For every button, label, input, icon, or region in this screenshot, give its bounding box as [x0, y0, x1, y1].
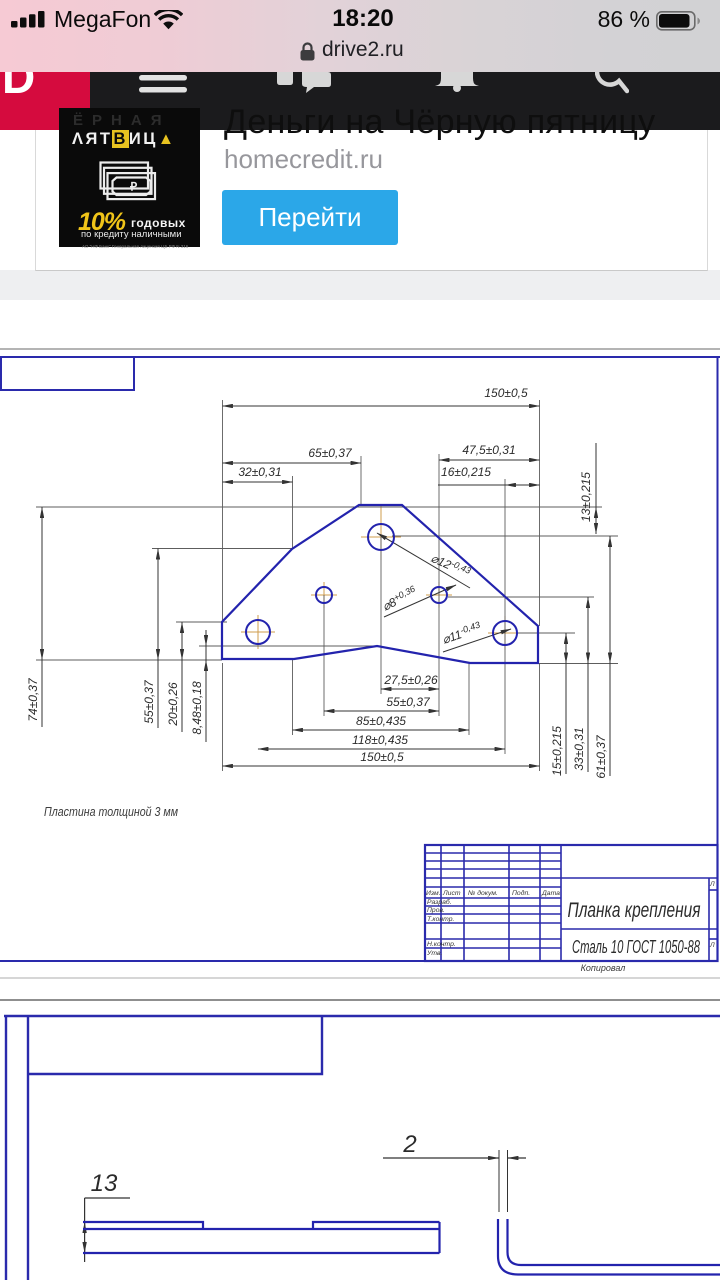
svg-text:Н.контр.: Н.контр.: [427, 941, 456, 948]
svg-text:Копировал: Копировал: [581, 963, 626, 973]
signal bars: [11, 11, 49, 28]
svg-text:Л: Л: [709, 881, 715, 888]
battery icon: [656, 11, 700, 31]
comment bubble icon: [277, 72, 331, 94]
svg-text:65±0,37: 65±0,37: [308, 446, 353, 460]
svg-text:⌀8+0,36: ⌀8+0,36: [380, 584, 419, 614]
iOS status bar: [0, 0, 720, 72]
bell icon: [435, 72, 479, 92]
hole H1 Ø12: [368, 524, 394, 550]
dimension 2 thickness: [383, 1131, 526, 1212]
kopiroval label: [581, 963, 626, 973]
search icon: [595, 72, 629, 94]
sheet2 left edge line: [5, 1016, 7, 1280]
svg-text:55±0,37: 55±0,37: [386, 695, 431, 709]
plate bottom edge: [83, 1252, 440, 1254]
svg-text:₽: ₽: [130, 182, 138, 194]
svg-text:47,5±0,31: 47,5±0,31: [462, 443, 515, 457]
ad white card: [35, 130, 708, 271]
bent strip cross-section: [498, 1219, 720, 1275]
centerline hole H4: [241, 615, 275, 649]
title block: [425, 845, 718, 961]
plate pad right: [313, 1222, 440, 1229]
dimension 150±0,5 top: [223, 386, 540, 406]
svg-text:15±0,215: 15±0,215: [550, 726, 564, 776]
leader Ø12: [377, 533, 472, 588]
svg-text:Т.контр.: Т.контр.: [427, 916, 455, 923]
dimension 47,5±0,31: [439, 443, 540, 460]
sheet1 lower photo edges: [0, 978, 720, 1000]
svg-text:32±0,31: 32±0,31: [238, 465, 281, 479]
svg-text:8,48±0,18: 8,48±0,18: [190, 681, 204, 735]
sheet1 top photo edge: [0, 348, 720, 350]
svg-text:118±0,435: 118±0,435: [352, 733, 408, 747]
leader Ø11: [440, 620, 511, 652]
sheet2 top-left stamp box: [28, 1016, 322, 1074]
sheet1 top-left stamp box: [1, 357, 134, 390]
dimension 32±0,31: [223, 465, 293, 482]
dimension 27,5±0,26: [381, 673, 439, 689]
sheet1 bottom frame line: [0, 960, 718, 962]
centerline hole H3: [426, 582, 452, 608]
dimension 13 height: [85, 1170, 130, 1262]
extension lines horizontals: [36, 507, 618, 664]
svg-text:13: 13: [91, 1170, 118, 1197]
svg-text:Пластина толщиной 3 мм: Пластина толщиной 3 мм: [44, 805, 178, 819]
plate pad left: [83, 1222, 203, 1229]
wifi icon: [154, 10, 183, 30]
sheet1 right frame line: [717, 357, 719, 961]
dimension 15±0,215 right: [550, 633, 566, 776]
title block small labels: [426, 881, 715, 957]
svg-text:2: 2: [402, 1131, 416, 1158]
battery percent: [594, 6, 650, 33]
svg-text:Разраб.: Разраб.: [427, 898, 452, 906]
dimension 20±0,26 left: [166, 622, 182, 732]
leader Ø8: [380, 584, 456, 617]
svg-text:20±0,26: 20±0,26: [166, 682, 180, 727]
plate side view top face: [83, 1222, 440, 1253]
svg-text:Изм.: Изм.: [426, 890, 441, 897]
clock: [330, 5, 396, 33]
extension lines verticals: [223, 400, 540, 771]
hamburger menu icon: [139, 72, 189, 98]
svg-text:Утв.: Утв.: [426, 950, 443, 957]
ad url: [224, 144, 383, 175]
dimension 13±0,215 right top: [579, 443, 596, 534]
ad title: [224, 103, 704, 143]
gray band below card: [0, 270, 720, 300]
svg-text:Л: Л: [709, 942, 715, 949]
centerline hole H5: [488, 616, 522, 650]
dimension 85±0,435: [293, 714, 470, 730]
carrier name: [54, 6, 151, 33]
lock icon: [299, 42, 316, 61]
ad black image: [59, 108, 200, 247]
site header dark bar: [0, 72, 720, 130]
dimension 65±0,37: [223, 446, 362, 463]
svg-text:27,5±0,26: 27,5±0,26: [383, 673, 438, 687]
dimension 8,48±0,18 left: [190, 630, 206, 742]
sheet2 left frame line: [27, 1016, 29, 1280]
svg-text:⌀12-0,43: ⌀12-0,43: [429, 550, 473, 580]
part outline: [222, 505, 538, 663]
ad button: [222, 190, 398, 245]
hole H2 Ø8: [316, 587, 332, 603]
svg-text:Планка крепления: Планка крепления: [568, 899, 701, 922]
hole H3 Ø8: [431, 587, 447, 603]
dimension 55±0,37 bottom: [324, 695, 439, 711]
svg-text:61±0,37: 61±0,37: [594, 734, 608, 779]
title block material: [572, 937, 700, 957]
svg-text:Подп.: Подп.: [512, 889, 530, 897]
sheet1 frame top line: [0, 356, 720, 358]
svg-text:74±0,37: 74±0,37: [26, 677, 40, 722]
hole H4 Ø11: [246, 620, 270, 644]
dimension 118±0,435: [258, 733, 505, 749]
svg-text:16±0,215: 16±0,215: [441, 465, 491, 479]
dimension 55±0,37 left: [142, 549, 158, 729]
svg-text:⌀11-0,43: ⌀11-0,43: [440, 620, 483, 647]
hole H5 Ø11: [493, 621, 517, 645]
svg-text:Лист: Лист: [442, 890, 461, 897]
sheet2 frame top line: [4, 1015, 720, 1017]
svg-text:Пров.: Пров.: [427, 907, 445, 914]
url text: [322, 38, 404, 62]
svg-text:85±0,435: 85±0,435: [356, 714, 406, 728]
drive2 red logo D: [0, 72, 90, 130]
dimension 33±0,31 right: [572, 597, 588, 772]
svg-text:33±0,31: 33±0,31: [572, 727, 586, 770]
dimension 16±0,215: [438, 465, 540, 485]
dimension 74±0,37 left: [26, 507, 42, 727]
dimension 61±0,37 right: [594, 536, 610, 779]
plate right edge: [438, 1222, 440, 1253]
dimension 150±0,5 bottom: [223, 750, 540, 766]
centerline hole H2: [311, 582, 337, 608]
svg-text:№ докум.: № докум.: [468, 889, 498, 897]
svg-text:13±0,215: 13±0,215: [579, 472, 593, 522]
svg-text:150±0,5: 150±0,5: [360, 750, 404, 764]
svg-text:Дата: Дата: [541, 890, 560, 897]
svg-text:150±0,5: 150±0,5: [484, 386, 528, 400]
title block part name: [568, 899, 701, 922]
note plate thickness: [44, 805, 178, 819]
svg-text:Сталь 10 ГОСТ 1050-88: Сталь 10 ГОСТ 1050-88: [572, 937, 700, 957]
svg-text:55±0,37: 55±0,37: [142, 679, 156, 724]
centerline hole H1: [361, 506, 401, 560]
